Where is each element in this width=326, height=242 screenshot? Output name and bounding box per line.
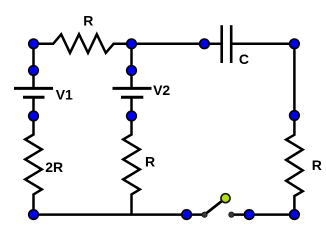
svg-text:2R: 2R (45, 159, 63, 175)
svg-text:R: R (83, 13, 93, 29)
svg-text:V2: V2 (153, 82, 170, 98)
svg-text:R: R (312, 157, 322, 173)
svg-text:V1: V1 (56, 86, 73, 102)
svg-text:R: R (145, 154, 155, 170)
svg-text:C: C (239, 51, 249, 67)
